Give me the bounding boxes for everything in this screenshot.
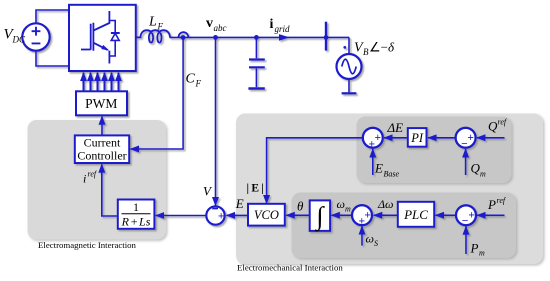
block PI [408,128,427,147]
svg-text:Controller: Controller [77,149,126,163]
summer signs [218,132,475,227]
node vabc dot [213,35,218,40]
svg-text:Base: Base [384,170,400,179]
svg-text:C: C [186,72,196,87]
wire omega sum to integrator [331,214,352,216]
wire Qref [477,137,505,139]
svg-text:ΔE: ΔE [387,120,404,135]
node capacitor dot [254,35,259,40]
svg-text:R + Ls: R + Ls [121,215,151,229]
wire Q sum to PI [428,137,456,139]
wire iref [102,164,118,216]
svg-text:m: m [479,249,485,258]
svg-text:F: F [157,22,164,32]
block PLC [398,202,434,227]
svg-text:S: S [374,239,378,248]
svg-text:−: − [462,215,469,227]
svg-text:+: + [467,132,474,144]
svg-text:PLC: PLC [403,207,428,222]
IGBT Q1 [81,11,109,64]
svg-text:grid: grid [275,24,291,34]
node bus dot [324,35,329,40]
svg-text:−: − [461,139,468,151]
inverter box [69,5,136,71]
block Current Controller [75,135,129,163]
svg-text:E: E [235,196,244,211]
svg-text:Electromechanical Interaction: Electromechanical Interaction [237,263,343,273]
svg-text:Q: Q [471,161,481,176]
svg-text:ω: ω [366,232,374,246]
svg-text:+: + [369,138,376,150]
ground bar capacitor [248,87,264,90]
svg-text:L: L [148,15,157,30]
diode D1 [109,21,119,57]
region: active power loop background [292,193,517,259]
IGBT emitter arrow [101,45,109,51]
svg-text:m: m [345,205,351,214]
svg-text:Δω: Δω [377,197,394,211]
node CF junction dot [181,35,186,40]
svg-text:Electromagnetic Interaction: Electromagnetic Interaction [38,240,137,250]
svg-text:P: P [487,197,496,212]
region: Electromagnetic Interaction background [28,120,167,240]
svg-text:+: + [218,210,225,222]
svg-text:v: v [206,16,213,31]
PWM box [76,91,127,115]
svg-text:+: + [468,210,475,222]
wire P sum to PLC [435,214,456,216]
wire V measurement down [215,37,217,205]
svg-text:VCO: VCO [254,208,279,222]
svg-text:δ: δ [388,40,395,55]
svg-text:1: 1 [133,200,139,214]
svg-text:i: i [83,172,86,186]
wire EBase [372,149,374,175]
region: Electromechanical Interaction background [236,114,543,265]
block VCO [248,204,285,226]
svg-text:m: m [480,170,486,179]
svg-text:F: F [195,79,202,89]
wire Qm [465,149,467,175]
svg-text:θ: θ [297,199,304,214]
summer Q [456,128,476,148]
wire Pref [477,214,505,216]
svg-text:ω: ω [337,197,345,211]
svg-text:V: V [203,184,213,199]
wire VCO E out [226,214,248,216]
svg-text:PWM: PWM [85,96,117,111]
block integrator [310,200,330,231]
summer P [456,205,476,225]
svg-text:+: + [375,132,382,144]
summer V-E [206,206,224,224]
wire main ac bus [170,36,350,38]
summer E [363,128,383,148]
bus bar [325,22,327,51]
block 1/(R+Ls) [118,200,155,229]
svg-text:P: P [470,241,479,256]
wire E magnitude to VCO [267,138,363,204]
wire sum to RLs [156,215,207,217]
svg-text:+: + [359,215,366,227]
node CF tap donut [179,32,189,37]
region: reactive power loop background [357,117,512,184]
svg-text:PI: PI [410,131,424,145]
wire CF sense down and into controller [130,38,183,150]
svg-text:Q: Q [488,119,498,134]
wire PLC to omega sum [374,214,398,216]
ground grid [348,79,350,92]
wire integrator to VCO [286,214,310,216]
summer omega [352,205,372,225]
wire to grid source [348,37,350,54]
wire controller to PWM [101,116,103,135]
svg-text:E: E [374,161,383,176]
svg-text:abc: abc [214,23,227,33]
svg-text:| E |: | E | [247,183,264,195]
gate arrows [84,73,119,91]
wire PI to E sum [384,137,408,139]
wire omegaS [361,226,363,245]
source grid VB [337,54,362,79]
wire Pm [465,226,467,254]
arrow igrid [279,34,290,41]
svg-text:∠−: ∠− [369,40,388,55]
source VDC [22,23,49,50]
node label dot [343,46,346,49]
svg-text:DC: DC [12,35,26,45]
capacitor shunt [255,39,257,58]
wire Vdc top [36,10,69,23]
svg-text:+: + [364,210,371,222]
svg-text:i: i [270,17,274,32]
inductor LF [136,30,170,42]
svg-text:Current: Current [84,135,121,149]
wire Vdc bottom [36,51,69,66]
